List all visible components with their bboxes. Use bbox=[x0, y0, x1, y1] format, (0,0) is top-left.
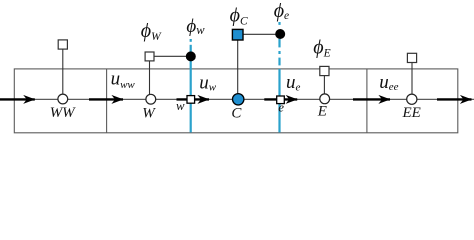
svg-text:ue: ue bbox=[286, 72, 301, 93]
arrow u_w bbox=[177, 98, 210, 100]
velocity node w (face square) bbox=[187, 96, 195, 104]
svg-text:ϕW: ϕW bbox=[141, 20, 162, 43]
node W bbox=[146, 94, 156, 104]
stem node W to phi_W marker bbox=[149, 61, 151, 94]
svg-text:w: w bbox=[176, 99, 185, 113]
svg-text:W: W bbox=[142, 106, 156, 122]
stem node WW to phi_WW marker bbox=[62, 49, 64, 93]
node E bbox=[320, 94, 330, 104]
svg-text:uee: uee bbox=[379, 72, 398, 93]
svg-text:ϕe: ϕe bbox=[274, 0, 289, 22]
phi_WW marker square bbox=[58, 40, 67, 49]
node WW bbox=[58, 94, 68, 104]
connector phi_W marker to phi_w face value bbox=[154, 55, 186, 57]
face line e (cyan, dash-dot above, solid below) bbox=[278, 22, 280, 132]
phi_W marker square bbox=[145, 52, 154, 61]
svg-text:e: e bbox=[278, 100, 284, 115]
arrow u_e bbox=[264, 98, 297, 100]
svg-text:ϕC: ϕC bbox=[230, 5, 248, 28]
arrow outflow at right boundary bbox=[437, 98, 472, 100]
arrow u_ww bbox=[89, 98, 123, 100]
phi_EE marker square bbox=[407, 53, 416, 62]
arrow inflow at left boundary bbox=[0, 98, 35, 100]
phi_C marker square (filled) bbox=[232, 29, 243, 40]
svg-text:E: E bbox=[317, 104, 327, 120]
node C (filled) bbox=[233, 94, 244, 105]
phi_e face value dot bbox=[275, 29, 285, 39]
face line w (cyan, dash-dot above, solid below) bbox=[190, 39, 192, 132]
stem node E to phi_E marker bbox=[323, 76, 325, 94]
svg-text:uww: uww bbox=[111, 69, 136, 91]
node EE bbox=[407, 94, 417, 104]
stem node C to phi_C marker bbox=[237, 41, 239, 94]
grid divider between WW and W cells bbox=[106, 69, 108, 133]
svg-text:EE: EE bbox=[402, 105, 421, 121]
wire main flow axis bbox=[0, 98, 474, 100]
arrow u_ee bbox=[353, 98, 390, 100]
phi_E marker square bbox=[320, 66, 329, 75]
control volume grid outer box bbox=[14, 69, 458, 133]
svg-text:ϕE: ϕE bbox=[313, 37, 330, 60]
svg-text:uw: uw bbox=[199, 72, 217, 93]
connector phi_C marker to phi_e face value bbox=[243, 33, 275, 35]
stem node EE to phi_EE marker bbox=[411, 63, 413, 94]
grid divider between E and EE cells bbox=[366, 69, 368, 133]
svg-text:C: C bbox=[231, 106, 242, 122]
svg-text:ϕw: ϕw bbox=[186, 16, 205, 37]
velocity node e (face square) bbox=[277, 96, 285, 104]
svg-text:WW: WW bbox=[50, 105, 76, 121]
phi_w face value dot bbox=[186, 51, 196, 61]
